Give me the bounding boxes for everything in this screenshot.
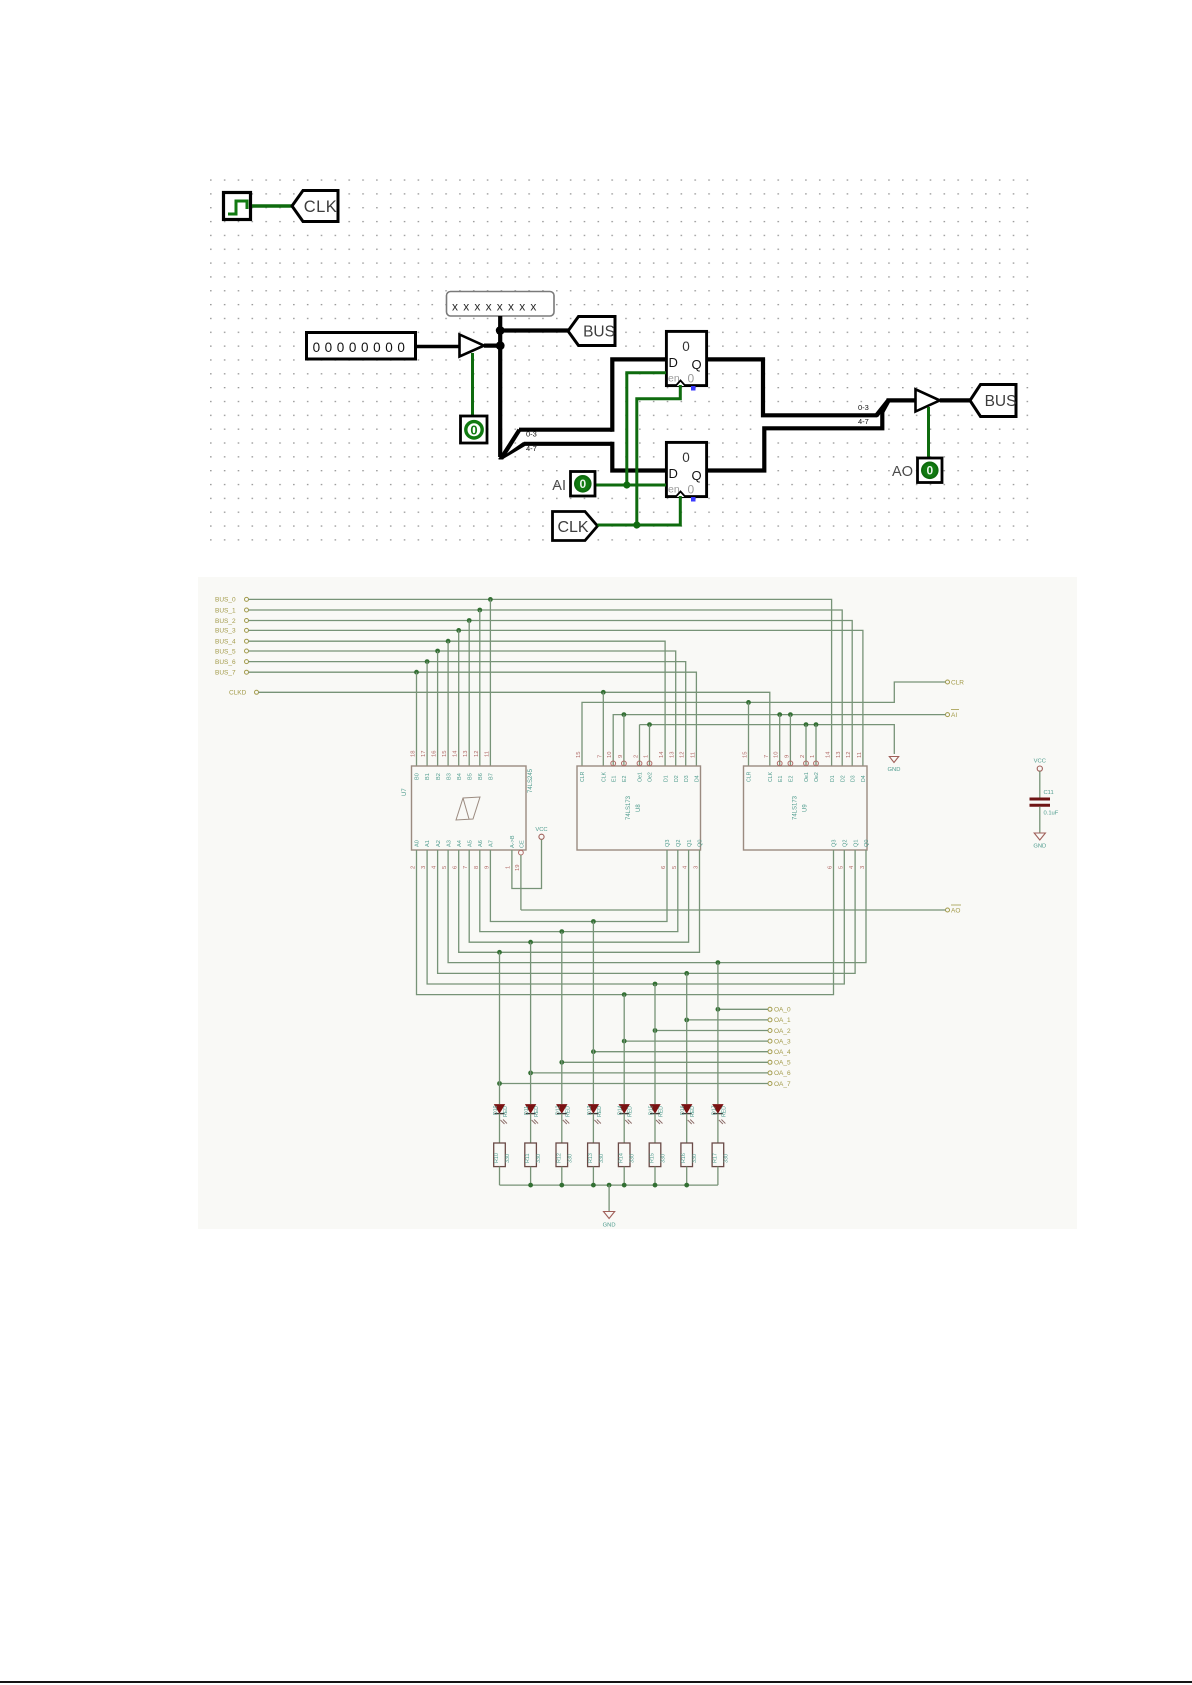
wire data rail bit (LED column 5) [427,850,844,984]
wire net OA_3 [624,1040,768,1042]
wire data rail bit (LED column 4) [417,850,834,995]
svg-text:RED: RED [690,1106,696,1117]
svg-text:R15: R15 [650,1153,656,1163]
svg-text:Q: Q [692,468,702,483]
wire LED column 3 upper [592,922,594,1105]
resistor R15 [649,1143,666,1167]
node junction BUS_4 to U7 [446,639,451,644]
svg-text:1: 1 [810,755,816,758]
power VCC symbol (U7 dir pin) [535,827,547,839]
node junction rail to LED column 0 [497,950,502,955]
svg-text:RED: RED [628,1106,634,1117]
node junction rail to LED column 2 [559,929,564,934]
inversion bubble E2 (U8) [622,761,627,766]
wire net BUS_1 [249,610,843,766]
node junction BUS_0 to U7 [488,597,493,602]
svg-text:0: 0 [688,483,695,497]
node junction ground rail [622,1183,627,1188]
svg-text:A3: A3 [446,840,452,847]
svg-text:C11: C11 [1044,790,1054,796]
svg-text:A2: A2 [436,840,442,847]
wire net OA_1 [687,1019,768,1021]
output pin 0 (AO) [918,458,943,483]
wire net OA_2 [655,1030,768,1032]
wire LED D14 to resistor R14 [623,1114,625,1143]
svg-text:Q2: Q2 [843,840,849,847]
wire LED column 5 upper [654,984,656,1104]
tunnel BUS (right) [970,385,1016,417]
svg-text:R12: R12 [556,1153,562,1163]
svg-text:CLK: CLK [557,519,588,536]
svg-text:D2: D2 [674,775,680,782]
svg-text:0-3: 0-3 [858,403,869,412]
svg-text:D: D [669,355,678,370]
net BUS_4 label [215,639,249,646]
svg-text:D: D [669,466,678,481]
LED D16 [682,1105,695,1125]
svg-text:Q0: Q0 [864,840,870,847]
svg-text:330: 330 [692,1154,698,1163]
svg-text:B0: B0 [415,773,421,780]
svg-text:17: 17 [421,751,427,757]
svg-text:B7: B7 [489,773,495,780]
svg-text:B4: B4 [457,773,463,780]
net OA_5 label [768,1060,791,1067]
net AO label [946,905,962,915]
svg-text:6: 6 [828,866,834,869]
inversion bubble Oe2 (U8) [647,761,652,766]
wire resistor R10 to ground rail [499,1167,501,1186]
svg-text:R14: R14 [619,1153,625,1163]
svg-text:0: 0 [682,339,690,354]
node junction BUS_2 to U7 [467,618,472,623]
node junction rail to LED column 1 [528,940,533,945]
svg-text:0.1uF: 0.1uF [1044,811,1059,817]
svg-text:5: 5 [442,866,448,869]
wire resistor R15 to ground rail [654,1167,656,1186]
IC U9 74LS173 box [744,766,868,850]
svg-text:E1: E1 [778,776,784,782]
svg-text:A1: A1 [425,840,431,847]
svg-text:U8: U8 [636,804,642,812]
svg-text:13: 13 [836,752,842,758]
wire net CLKD [259,692,770,766]
svg-text:RED: RED [597,1106,603,1117]
wire net BUS_4 [249,641,666,766]
wire VCC to C11 [1039,771,1041,797]
wire GND rail to U8 pin M [639,725,641,766]
svg-text:12: 12 [474,751,480,757]
wire VCC to U7 pin 1 [512,839,542,888]
svg-text:OA_3: OA_3 [774,1038,791,1045]
svg-text:B2: B2 [436,773,442,780]
svg-text:RED: RED [721,1106,727,1117]
svg-text:6: 6 [661,866,667,869]
wire AI to enable pin [623,715,625,766]
wire data rail bit (LED column 7) [448,850,866,963]
net BUS_2 label [215,618,249,625]
wire BUS_2 to U7 pin [468,621,470,767]
wire buffer B1 output [484,344,502,348]
svg-text:Q2: Q2 [676,840,682,847]
ground symbol (rail) [888,757,901,774]
svg-text:Oe2: Oe2 [648,772,654,782]
svg-text:7: 7 [463,866,469,869]
node junction clock net [633,521,640,528]
svg-text:1: 1 [644,755,650,758]
svg-text:CLK: CLK [304,198,338,216]
wire LED D13 to resistor R13 [592,1114,594,1143]
wire to BUS tunnel (top) [500,328,569,332]
svg-text:8: 8 [474,866,480,869]
svg-text:A4: A4 [457,840,463,847]
svg-text:E2: E2 [622,776,628,782]
wire net OA_7 [500,1083,769,1085]
svg-text:OA_2: OA_2 [774,1028,791,1035]
svg-text:5: 5 [672,866,678,869]
wire C11 to GND [1039,807,1041,833]
svg-text:B5: B5 [467,773,473,780]
svg-text:OA_4: OA_4 [774,1049,791,1056]
svg-text:3: 3 [860,866,866,869]
buffer B1 [460,335,485,357]
wire buffer B2 to BUS tunnel [940,398,971,402]
IC U7 driver glyph [456,797,480,820]
svg-text:CLR: CLR [580,771,586,782]
capacitor C11 [1030,799,1051,805]
node junction GND rail [647,722,652,727]
svg-text:330: 330 [567,1154,573,1163]
svg-text:D3: D3 [850,775,856,782]
node junction ground rail [559,1183,564,1188]
svg-text:12: 12 [680,752,686,758]
node junction rail to LED column 4 [622,992,627,997]
svg-text:GND: GND [1033,844,1046,850]
svg-text:RED: RED [565,1106,571,1117]
wire net GND rail [640,725,895,754]
inversion bubble Oe1 (U8) [637,761,642,766]
wire resistor R16 to ground rail [686,1167,688,1186]
wire U2 Q to splitter S2 [707,412,882,471]
wire LED D15 to resistor R15 [654,1114,656,1143]
svg-text:AI: AI [951,712,957,719]
wire net BUS_2 [249,621,853,767]
splitter S1 leg 4-7 [524,442,612,446]
svg-text:10: 10 [774,752,780,758]
svg-text:6: 6 [453,866,459,869]
net BUS_1 label [215,607,249,614]
svg-text:D2: D2 [840,775,846,782]
svg-text:0: 0 [926,464,933,478]
svg-text:B1: B1 [425,773,431,780]
svg-text:Q3: Q3 [832,840,838,847]
svg-text:AI: AI [552,478,566,494]
svg-text:D1: D1 [830,775,836,782]
svg-text:D4: D4 [861,775,867,782]
svg-text:14: 14 [826,751,832,758]
svg-text:R10: R10 [494,1153,500,1163]
svg-text:D12: D12 [555,1105,561,1115]
svg-text:OA_7: OA_7 [774,1081,791,1088]
wire LED column 6 upper [686,973,688,1104]
svg-text:RED: RED [534,1106,540,1117]
node junction OA_3 [622,1039,627,1044]
LED D14 [619,1105,632,1125]
inversion bubble Oe2 (U9) [814,761,819,766]
resistor R12 [556,1143,573,1167]
svg-text:13: 13 [463,751,469,757]
node junction AI rail [777,712,782,717]
footer separator line [0,1681,1192,1683]
splitter S1 fan [498,429,525,460]
net BUS_5 label [215,648,249,655]
wire BUS_0 to U7 pin [489,599,491,766]
svg-text:R11: R11 [525,1154,531,1164]
svg-text:19: 19 [515,865,521,871]
wire input pin to buffer [416,345,460,348]
wire resistor R17 to ground rail [717,1167,719,1186]
wire BUS_7 to U7 pin [416,672,418,766]
svg-text:11: 11 [484,751,490,757]
node junction OA_1 [684,1018,689,1023]
LED D10 [495,1105,508,1125]
node junction BUS_6 to U7 [425,659,430,664]
wire clock to CLK tunnel [252,204,293,208]
svg-text:BUS_3: BUS_3 [215,628,236,635]
net OA_4 label [768,1049,791,1056]
resistor R14 [618,1143,635,1167]
inversion bubble E1 (U8) [611,761,616,766]
svg-text:0: 0 [682,450,690,465]
svg-text:OA_0: OA_0 [774,1007,791,1014]
LED D15 [650,1105,663,1125]
resistor R13 [588,1143,605,1167]
net OA_7 label [768,1081,791,1088]
wire LED column 2 upper [561,932,563,1104]
node junction at buffer output [496,341,505,350]
node junction AI rail [622,712,627,717]
input pin 00000000 [307,333,416,360]
inversion bubble E2 (U9) [788,761,793,766]
svg-text:330: 330 [723,1154,729,1163]
net CLKD label [229,690,259,697]
svg-text:CLR: CLR [747,771,753,782]
svg-text:Oe1: Oe1 [638,772,644,782]
wire LED column 0 upper [499,952,501,1104]
svg-text:D16: D16 [680,1105,686,1115]
svg-text:5: 5 [838,866,844,869]
wire resistor R13 to ground rail [592,1167,594,1186]
svg-text:BUS: BUS [583,324,615,341]
wire net AO rail [521,909,946,911]
svg-text:A7: A7 [489,840,495,847]
svg-text:GND: GND [888,767,901,773]
net CLR label [946,680,965,687]
wire buffer B1 enable [471,353,474,415]
output pin 0 (buffer enable) [461,416,488,443]
node junction BUS_7 to U7 [414,670,419,675]
svg-text:A->B: A->B [510,835,516,848]
svg-text:xxxxxxxx: xxxxxxxx [452,300,542,314]
net BUS_7 label [215,670,249,677]
svg-text:7: 7 [764,755,770,758]
svg-text:00000000: 00000000 [313,340,410,355]
svg-text:2: 2 [800,755,806,758]
wire U7 CE pin to AO rail [520,855,522,910]
svg-text:330: 330 [661,1154,667,1163]
svg-text:0: 0 [688,372,695,386]
net OA_2 label [768,1028,791,1035]
wire LED D17 to resistor R17 [717,1114,719,1143]
net OA_6 label [768,1070,791,1077]
net BUS_3 label [215,628,249,635]
wire GND rail to pin [649,725,651,766]
svg-text:0: 0 [470,423,477,438]
svg-text:11: 11 [857,752,863,758]
wire CLR to U9 CLR pin [748,702,750,766]
node junction BUS_5 to U7 [435,649,440,654]
svg-text:74LS173: 74LS173 [793,795,799,820]
node junction OA_0 [716,1007,721,1012]
node junction rail to LED column 7 [716,960,721,965]
node junction AI net [623,481,630,488]
svg-text:OA_5: OA_5 [774,1060,791,1067]
net OA_3 label [768,1038,791,1045]
tunnel BUS (top) [568,317,615,346]
svg-text:10: 10 [607,752,613,758]
node junction ground rail [528,1183,533,1188]
svg-text:AO: AO [951,908,960,915]
ground symbol (C11) [1033,833,1046,850]
svg-text:14: 14 [453,750,459,757]
svg-text:D13: D13 [587,1105,593,1115]
resistor R11 [525,1143,542,1167]
LED D13 [588,1105,601,1125]
svg-text:BUS_5: BUS_5 [215,648,236,655]
wire data rail bit (LED column 3) [490,850,667,922]
wire U1 Q to splitter S2 [707,359,877,415]
svg-text:Q: Q [692,357,702,372]
node junction ground rail [653,1183,658,1188]
node junction ground tap [607,1183,612,1188]
svg-text:BUS_6: BUS_6 [215,659,236,666]
wire LED column 4 upper [623,995,625,1104]
svg-text:D10: D10 [493,1105,499,1115]
svg-text:E2: E2 [789,776,795,782]
input pin AI [571,472,596,497]
svg-text:VCC: VCC [1034,759,1046,765]
svg-text:B3: B3 [446,773,452,780]
LED D12 [557,1105,570,1125]
svg-text:BUS_0: BUS_0 [215,597,236,604]
svg-text:15: 15 [743,752,749,758]
wire AI to enable pin [779,715,781,766]
resistor R17 [712,1143,729,1167]
wire CLK tunnel to U2 clk [598,496,681,525]
svg-text:RED: RED [659,1106,665,1117]
node junction OA_2 [653,1028,658,1033]
svg-text:Q1: Q1 [853,840,859,847]
net AI label [946,710,960,720]
wire GND rail to pin [815,725,817,766]
svg-text:A0: A0 [415,840,421,847]
net OA_0 label [768,1007,791,1014]
wire BUS_5 to U7 pin [437,651,439,766]
svg-text:13: 13 [670,752,676,758]
svg-text:9: 9 [618,755,624,758]
node junction GND rail [814,722,819,727]
node junction rail to LED column 5 [653,982,658,987]
node junction rail to LED column 3 [591,919,596,924]
wire buffer B2 enable [927,407,930,457]
wire CLKD to U8 CLK pin [602,692,604,766]
svg-text:BUS_7: BUS_7 [215,670,236,677]
svg-text:2: 2 [411,866,417,869]
svg-text:E1: E1 [611,776,617,782]
clock source CLK1 [224,193,251,220]
svg-text:CLKD: CLKD [229,690,247,697]
svg-text:VCC: VCC [535,827,547,833]
svg-text:CLK: CLK [602,771,608,782]
net BUS_6 label [215,659,249,666]
wire BUS_6 to U7 pin [426,662,428,766]
inversion bubble Oe1 (U9) [804,761,809,766]
node junction at BUS tap [496,326,505,335]
node junction OA_6 [528,1071,533,1076]
svg-text:0-3: 0-3 [526,430,537,439]
svg-text:D11: D11 [524,1106,530,1115]
wire BUS_4 to U7 pin [447,641,449,766]
wire LED D11 to resistor R11 [530,1114,532,1143]
wire ground rail (LEDs) [500,1184,718,1186]
svg-text:D14: D14 [618,1105,624,1115]
svg-text:Q1: Q1 [687,840,693,847]
svg-text:1: 1 [506,866,512,869]
svg-text:BUS_4: BUS_4 [215,639,236,646]
svg-text:Oe1: Oe1 [804,772,810,782]
svg-text:12: 12 [846,752,852,758]
svg-text:Oe2: Oe2 [814,772,820,782]
wire net CLR rail [582,682,946,766]
resistor R10 [494,1143,511,1167]
wire GND rail to pin [805,725,807,766]
node junction BUS_3 to U7 [456,628,461,633]
svg-text:A5: A5 [467,840,473,847]
svg-text:GND: GND [603,1223,616,1229]
svg-text:18: 18 [411,751,417,757]
svg-text:74LS245: 74LS245 [528,768,534,793]
wire clock net to U1 clk [637,385,681,525]
wire LED D10 to resistor R10 [499,1114,501,1143]
node junction ground rail [591,1183,596,1188]
register U1 [666,331,706,390]
svg-text:15: 15 [442,751,448,757]
svg-text:R13: R13 [588,1153,594,1163]
IC U7 74LS245 box [412,766,527,850]
wire AI input to U2 en [596,484,666,487]
svg-text:14: 14 [659,751,665,758]
svg-text:OA_1: OA_1 [774,1017,791,1024]
svg-text:15: 15 [576,752,582,758]
probe XXXXXXXX [447,292,555,317]
wire LED column 1 upper [530,942,532,1104]
svg-text:CE: CE [520,840,526,848]
wire AI to enable pin [789,715,791,766]
svg-text:2: 2 [634,755,640,758]
node junction rail to LED column 6 [684,971,689,976]
svg-text:Q3: Q3 [665,840,671,847]
wire net OA_5 [562,1061,768,1063]
